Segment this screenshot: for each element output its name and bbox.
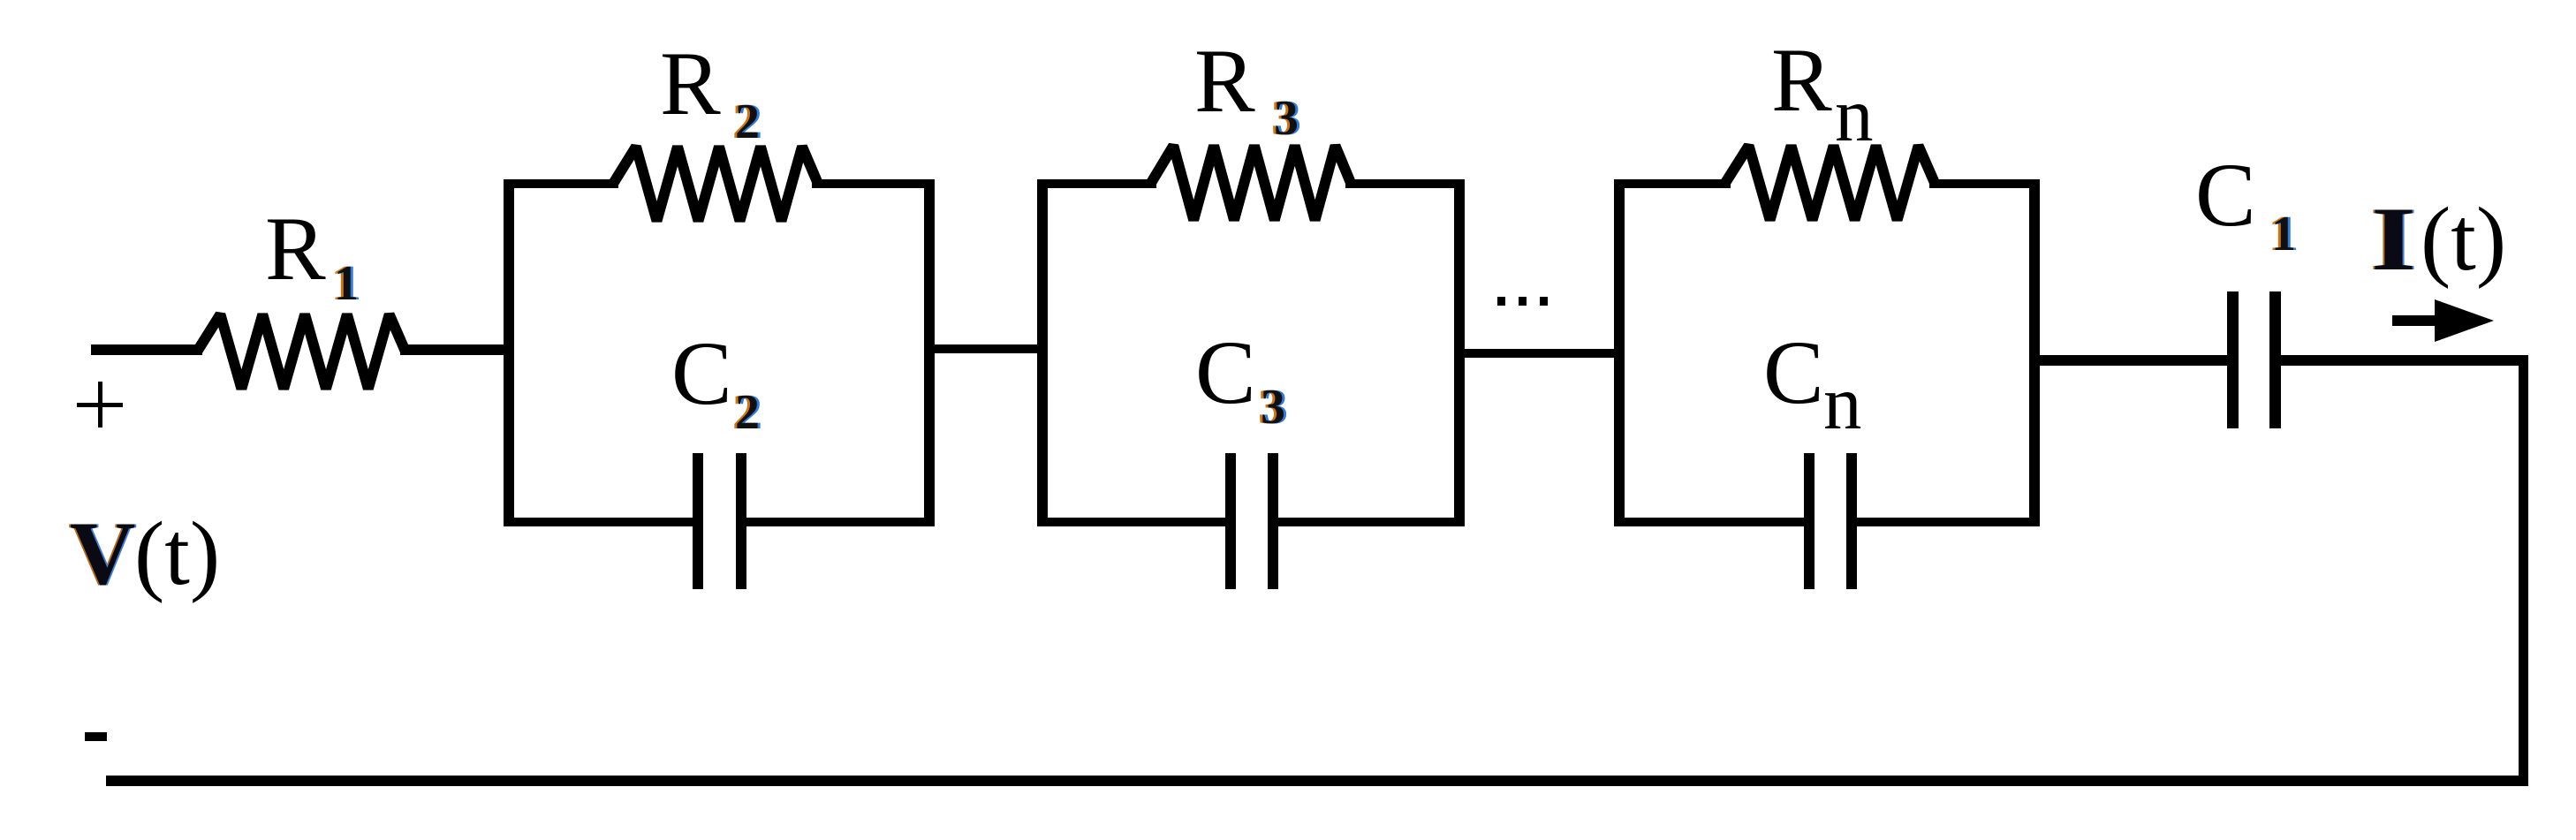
resistor R2 bbox=[613, 147, 818, 221]
wire: block R2C2 bottom edge left segment bbox=[504, 518, 694, 526]
wire: block RnCn bottom edge right segment bbox=[1855, 518, 2040, 526]
label C1 bbox=[2195, 145, 2299, 261]
arrow: current direction I(t) bbox=[2392, 299, 2494, 342]
capacitor C2 bbox=[693, 453, 746, 589]
label C2 bbox=[671, 323, 762, 440]
label V(t) bbox=[68, 503, 220, 604]
svg-text:2: 2 bbox=[735, 95, 760, 149]
block RnCn right edge bbox=[2029, 179, 2040, 526]
label R2 bbox=[660, 34, 762, 149]
wire: block RnCn top edge left segment bbox=[1614, 179, 1731, 188]
wire: block RnCn bottom edge left segment bbox=[1614, 518, 1806, 526]
label C3 bbox=[1195, 322, 1288, 435]
label R3 bbox=[1194, 31, 1301, 146]
svg-text:R: R bbox=[265, 199, 326, 299]
wire: block R3C3 bottom edge right segment bbox=[1277, 518, 1465, 526]
resistor Rn bbox=[1725, 146, 1935, 220]
wire: capacitor C1 to top-right corner bbox=[2279, 355, 2528, 366]
svg-text:3: 3 bbox=[1261, 380, 1285, 435]
wire: block RnCn to capacitor C1 bbox=[2034, 355, 2229, 366]
wire: bottom return to V(t) - terminal bbox=[106, 776, 2528, 786]
wire: block R2C2 bottom edge right segment bbox=[745, 518, 935, 526]
svg-text:(t): (t) bbox=[2421, 189, 2506, 290]
svg-text:C: C bbox=[1195, 322, 1256, 423]
svg-text:R: R bbox=[1771, 30, 1832, 131]
terminal: - (negative) bbox=[85, 732, 107, 741]
svg-text:1: 1 bbox=[334, 256, 359, 311]
label Cn bbox=[1763, 322, 1862, 445]
svg-text:(t): (t) bbox=[134, 503, 220, 604]
label I(t) bbox=[2369, 189, 2506, 290]
svg-text:2: 2 bbox=[735, 385, 760, 440]
node: ellipsis (continuation dots) bbox=[1497, 297, 1548, 306]
wire: left input from V(t) + terminal to R1 bbox=[91, 344, 202, 355]
wire: block R3C3 top edge left segment bbox=[1037, 179, 1156, 188]
capacitor C1 bbox=[2227, 291, 2281, 428]
wire: right vertical return bbox=[2519, 355, 2528, 786]
block R3C3 left edge bbox=[1037, 179, 1048, 526]
wire: block R3C3 toward ellipsis and block RnCn bbox=[1459, 349, 1619, 358]
svg-text:1: 1 bbox=[2271, 207, 2296, 261]
node A / block R2C2 left edge bbox=[504, 179, 514, 526]
wire: block R3C3 top edge right segment bbox=[1345, 179, 1465, 188]
capacitor C3 bbox=[1225, 453, 1278, 589]
wire: block R3C3 bottom edge left segment bbox=[1037, 518, 1227, 526]
capacitor Cn bbox=[1804, 453, 1857, 589]
svg-text:R: R bbox=[1194, 31, 1255, 132]
svg-text:C: C bbox=[671, 323, 732, 424]
terminal: + (positive) bbox=[77, 382, 123, 428]
svg-text:I: I bbox=[2371, 189, 2416, 290]
svg-text:R: R bbox=[660, 34, 721, 134]
wire: block RnCn top edge right segment bbox=[1929, 179, 2040, 188]
svg-text:n: n bbox=[1823, 359, 1862, 445]
block R2C2 right edge bbox=[924, 179, 935, 526]
svg-text:n: n bbox=[1835, 72, 1874, 157]
wire: R1 to node A (block R2C2 left) bbox=[400, 344, 509, 355]
resistor R3 bbox=[1151, 146, 1351, 220]
block RnCn left edge bbox=[1614, 179, 1625, 526]
resistor R1 bbox=[197, 314, 405, 389]
label Rn bbox=[1771, 30, 1874, 157]
block R3C3 right edge bbox=[1454, 179, 1465, 526]
svg-text:V: V bbox=[70, 503, 135, 604]
label R1 bbox=[265, 199, 361, 311]
wire: block R2C2 top edge left segment bbox=[504, 179, 618, 188]
svg-text:C: C bbox=[1763, 322, 1824, 423]
wire: block R2C2 top edge right segment bbox=[812, 179, 935, 188]
svg-text:C: C bbox=[2195, 145, 2256, 246]
svg-text:3: 3 bbox=[1274, 91, 1299, 146]
wire: block R2C2 to block R3C3 bbox=[929, 344, 1042, 353]
